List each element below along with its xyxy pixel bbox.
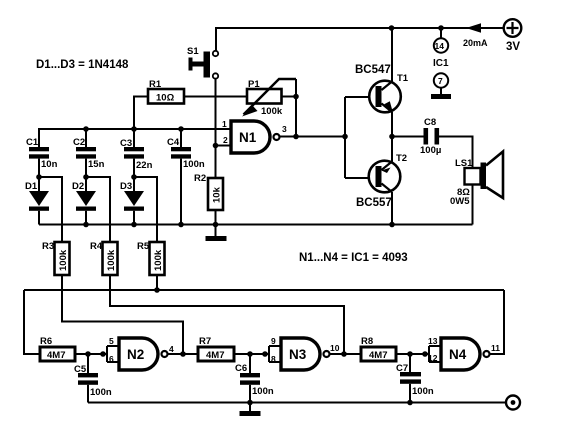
arrow supply current direction xyxy=(466,23,481,33)
svg-text:10n: 10n xyxy=(41,159,58,170)
capacitor C4 xyxy=(167,129,205,225)
node P1 wiper junction xyxy=(293,94,299,100)
transistor Q1 T1 BC547 xyxy=(369,28,401,137)
node T2 collector ground xyxy=(389,222,395,228)
capacitor C5 xyxy=(74,354,112,403)
svg-text:100k: 100k xyxy=(153,249,164,271)
svg-text:10: 10 xyxy=(330,343,340,353)
svg-text:3V: 3V xyxy=(506,41,520,53)
svg-text:C5: C5 xyxy=(74,364,87,375)
capacitor C1 xyxy=(26,137,58,192)
svg-text:R7: R7 xyxy=(199,336,211,347)
diode D1 xyxy=(25,181,49,225)
svg-text:C1: C1 xyxy=(26,137,39,148)
wire N1 pin2 stub xyxy=(216,145,232,147)
node D3 ground xyxy=(131,222,137,228)
ground symbol IC1 xyxy=(431,88,451,99)
svg-text:LS1: LS1 xyxy=(455,158,473,169)
svg-text:C4: C4 xyxy=(167,137,180,148)
IC1 pin 14 xyxy=(434,28,448,53)
svg-text:1: 1 xyxy=(222,119,227,129)
svg-text:100n: 100n xyxy=(252,386,274,397)
svg-text:20mA: 20mA xyxy=(463,38,488,48)
wire R1 left to capacitor rail xyxy=(134,97,148,130)
svg-text:10k: 10k xyxy=(212,186,223,203)
capacitor C3 xyxy=(120,129,153,192)
svg-text:4M7: 4M7 xyxy=(369,350,387,361)
transistor Q2 T2 BC557 xyxy=(369,137,401,225)
svg-text:4: 4 xyxy=(169,344,174,354)
wire R5 to N4 output feedback line xyxy=(24,275,504,354)
node N2 input junction xyxy=(100,351,106,357)
node R2 ground xyxy=(213,222,219,228)
wire N4 input bracket xyxy=(429,346,441,362)
node N3 input junction xyxy=(262,351,268,357)
node C2 D2 junction xyxy=(83,174,89,180)
op-amp gate N1 xyxy=(231,121,280,153)
resistor R6 xyxy=(40,347,75,361)
svg-text:T1: T1 xyxy=(397,73,409,84)
node T1 collector junction xyxy=(389,25,395,31)
svg-text:100n: 100n xyxy=(90,387,112,398)
svg-text:10Ω: 10Ω xyxy=(156,93,175,104)
svg-text:100n: 100n xyxy=(412,386,434,397)
wire N3 input bracket xyxy=(269,346,281,362)
svg-text:2: 2 xyxy=(223,135,228,145)
svg-text:3: 3 xyxy=(282,124,287,134)
svg-text:R2: R2 xyxy=(194,173,206,184)
capacitor C7 xyxy=(396,354,434,403)
wire R8 to N4 inputs xyxy=(396,353,429,355)
battery terminal +3V xyxy=(504,19,522,37)
svg-text:D2: D2 xyxy=(72,181,84,192)
wire ground rail upper xyxy=(39,224,473,226)
svg-text:7: 7 xyxy=(438,76,443,86)
svg-text:N4: N4 xyxy=(449,347,467,362)
wire R1 to P1 xyxy=(184,96,247,98)
svg-text:C6: C6 xyxy=(235,363,247,374)
node emitters C8 junction xyxy=(389,134,395,140)
svg-text:5: 5 xyxy=(109,336,114,346)
op-amp gate N2 xyxy=(119,338,168,370)
svg-text:0W5: 0W5 xyxy=(450,196,470,207)
svg-text:T2: T2 xyxy=(396,153,407,164)
wire N2 output to R7 xyxy=(168,353,199,355)
wire R3 to N2 output feedback xyxy=(62,275,183,354)
svg-text:IC1: IC1 xyxy=(433,58,449,69)
svg-text:N2: N2 xyxy=(127,347,144,362)
diode D2 xyxy=(72,181,96,225)
svg-text:4M7: 4M7 xyxy=(206,350,224,361)
node C1 D1 junction xyxy=(36,174,42,180)
svg-text:11: 11 xyxy=(491,343,500,353)
wire D2 junction to R4 xyxy=(86,177,110,242)
node C4 ground xyxy=(178,222,184,228)
node C3 R1 top xyxy=(131,126,137,132)
IC1 pin 7 xyxy=(434,73,448,87)
svg-text:D1...D3 = 1N4148: D1...D3 = 1N4148 xyxy=(36,59,129,71)
resistor R2 xyxy=(208,178,223,225)
svg-text:100µ: 100µ xyxy=(420,145,441,156)
svg-text:C7: C7 xyxy=(396,363,408,374)
svg-text:9: 9 xyxy=(271,336,276,346)
resistor R4 xyxy=(103,242,118,275)
wire R4 to N3 output feedback xyxy=(110,275,344,354)
svg-text:6: 6 xyxy=(109,354,114,364)
svg-text:R6: R6 xyxy=(40,336,52,347)
wire P1 wiper and right terminal to N1 output xyxy=(282,79,297,137)
wire S1 to N1 pin2 and R2 xyxy=(215,79,217,178)
node R5 feedback junction xyxy=(154,287,160,293)
diode D3 xyxy=(120,181,144,225)
wire N1 output to transistor bases xyxy=(280,136,346,138)
ground symbol under R2 xyxy=(206,225,227,242)
node D2 ground xyxy=(83,222,89,228)
svg-text:22n: 22n xyxy=(136,160,153,171)
wire N3 output to R8 xyxy=(330,353,362,355)
node N1 output P1 junction xyxy=(293,134,299,140)
svg-text:N1...N4 = IC1 = 4093: N1...N4 = IC1 = 4093 xyxy=(299,252,408,264)
switch S1 xyxy=(189,51,219,79)
svg-text:R4: R4 xyxy=(90,241,103,252)
wire C8 to speaker xyxy=(439,137,473,169)
node N3 output junction xyxy=(341,351,347,357)
svg-text:14: 14 xyxy=(435,41,445,51)
speaker LS1 xyxy=(465,152,504,225)
resistor R7 xyxy=(198,347,234,361)
svg-text:R3: R3 xyxy=(42,241,54,252)
capacitor C8 xyxy=(420,117,441,156)
svg-text:N3: N3 xyxy=(289,347,307,362)
node C6 bottom rail xyxy=(247,400,253,406)
wire D3 junction to R5 xyxy=(134,177,157,242)
svg-text:R5: R5 xyxy=(137,241,150,252)
node C3 D3 junction xyxy=(131,174,137,180)
svg-text:BC557: BC557 xyxy=(356,197,392,209)
op-amp gate N4 xyxy=(441,338,490,370)
wire D1 junction to R3 xyxy=(39,177,62,242)
potentiometer P1 xyxy=(242,79,296,117)
output terminal xyxy=(506,396,520,410)
node base line junction xyxy=(342,134,348,140)
svg-text:100k: 100k xyxy=(58,249,69,271)
capacitor C6 xyxy=(235,354,274,403)
node C7 junction xyxy=(407,351,413,357)
svg-text:C8: C8 xyxy=(424,117,436,128)
svg-text:100n: 100n xyxy=(183,159,205,170)
node C6 junction xyxy=(247,351,253,357)
node N1 pin2 junction xyxy=(213,143,219,149)
svg-text:C3: C3 xyxy=(120,138,132,149)
wire emitters to C8 xyxy=(392,136,424,138)
svg-text:P1: P1 xyxy=(248,79,260,90)
svg-text:R8: R8 xyxy=(361,336,373,347)
wire capacitor top rail xyxy=(39,129,231,147)
svg-text:C2: C2 xyxy=(73,137,85,148)
wire base tie line xyxy=(345,97,369,178)
ground symbol bottom xyxy=(240,403,261,417)
op-amp gate N3 xyxy=(281,338,330,370)
svg-text:15n: 15n xyxy=(88,159,105,170)
wire top supply rail xyxy=(216,28,503,51)
resistor R1 xyxy=(148,89,184,104)
node C5 junction xyxy=(85,351,91,357)
svg-text:13: 13 xyxy=(428,336,438,346)
node C2 top xyxy=(83,126,89,132)
svg-text:8: 8 xyxy=(271,354,276,364)
wire R7 to N3 inputs xyxy=(234,353,269,355)
node C4 top xyxy=(178,126,184,132)
svg-text:D3: D3 xyxy=(120,181,132,192)
node N4 input junction xyxy=(422,351,428,357)
svg-text:4M7: 4M7 xyxy=(47,350,65,361)
wire N2 input bracket xyxy=(107,346,119,362)
resistor R8 xyxy=(361,347,396,361)
wire bottom rail xyxy=(88,402,506,404)
node IC1 supply junction xyxy=(438,25,444,31)
svg-text:D1: D1 xyxy=(25,181,38,192)
capacitor C2 xyxy=(73,129,105,192)
svg-text:N1: N1 xyxy=(239,130,257,145)
node N2 output junction xyxy=(180,351,186,357)
svg-text:BC547: BC547 xyxy=(355,64,391,76)
node C7 bottom rail xyxy=(407,400,413,406)
svg-text:R1: R1 xyxy=(149,79,162,90)
svg-text:S1: S1 xyxy=(187,46,199,57)
resistor R5 xyxy=(150,242,165,275)
wire R6 to N2 inputs xyxy=(75,353,107,355)
svg-text:100k: 100k xyxy=(261,106,283,117)
svg-text:100k: 100k xyxy=(106,249,117,271)
svg-text:12: 12 xyxy=(428,353,438,363)
resistor R3 xyxy=(55,242,70,275)
